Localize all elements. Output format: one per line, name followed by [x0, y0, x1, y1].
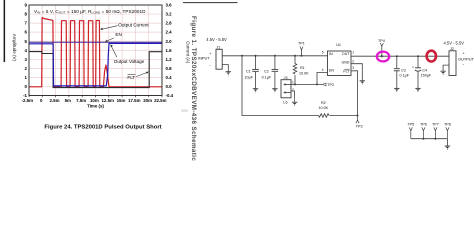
svg-text:VIN = 5 V, COUT = 150 µF, RLOA: VIN = 5 V, COUT = 150 µF, RLOAD = 50 mΩ,…: [34, 9, 146, 15]
wire: R1 top stub: [294, 56, 296, 64]
svg-text:3.6: 3.6: [166, 3, 173, 8]
wire: TP5-TP8 bus: [411, 138, 448, 140]
svg-text:2.0: 2.0: [166, 39, 173, 44]
wire: U1 pin3 FLT down: [351, 71, 358, 116]
resistor R2: [319, 114, 330, 118]
ground: U1 GND pin: [360, 81, 365, 85]
svg-text:20m: 20m: [143, 98, 152, 103]
svg-text:U1: U1: [336, 43, 341, 47]
svg-text:OUTPUT: OUTPUT: [458, 56, 474, 61]
svg-text:FLT: FLT: [127, 75, 135, 80]
capacitor C1: [252, 69, 259, 71]
wire: C1 stubs: [255, 56, 257, 69]
test point TP1: [300, 47, 303, 50]
svg-text:J2: J2: [450, 47, 454, 51]
wire: U1 pin4 EN: [317, 73, 328, 85]
svg-text:TP7: TP7: [432, 122, 439, 126]
wire: TP4 stem: [381, 46, 383, 56]
plot border: [29, 5, 162, 96]
svg-text:Figure 1. TPS20xxCDBVEVM-436 S: Figure 1. TPS20xxCDBVEVM-436 Schematic: [190, 16, 197, 161]
svg-text:EN: EN: [329, 69, 334, 73]
svg-text:1: 1: [352, 50, 354, 54]
y axis labels right: [166, 3, 174, 99]
svg-text:R1: R1: [300, 66, 305, 70]
trace: EN (violet): [29, 41, 162, 43]
svg-text:Figure 24. TPS2001D Pulsed Out: Figure 24. TPS2001D Pulsed Output Short: [44, 124, 161, 130]
svg-text:Time (s): Time (s): [87, 103, 104, 108]
svg-text:4.5V - 5.5V: 4.5V - 5.5V: [206, 37, 227, 42]
connector J3: [281, 80, 291, 98]
svg-text:2: 2: [352, 60, 354, 64]
test point TP2 arrow: [323, 83, 327, 86]
left page border line: [4, 0, 6, 62]
svg-text:0.0: 0.0: [166, 84, 173, 89]
svg-text:3.2: 3.2: [166, 12, 173, 17]
ground: C2: [272, 89, 277, 93]
svg-text:R2: R2: [321, 101, 326, 105]
svg-text:0.8: 0.8: [166, 66, 173, 71]
wire: TP1 stem: [301, 50, 303, 56]
svg-text:TP5: TP5: [407, 122, 414, 126]
wire: U1 pin2 GND: [351, 64, 362, 81]
wire: output rail: [351, 55, 449, 57]
svg-text:FLT: FLT: [343, 70, 350, 74]
wire: R1 bottom stub: [294, 75, 296, 84]
test point TP3: [356, 116, 359, 124]
svg-text:7.5m: 7.5m: [76, 98, 86, 103]
svg-text:10.0K: 10.0K: [319, 106, 329, 110]
wire: J2 ground stub: [443, 65, 449, 71]
capacitor C4 polarized: [415, 68, 421, 71]
svg-text:15m: 15m: [117, 98, 126, 103]
junction dots input rail: [241, 55, 243, 57]
top figure border line: [183, 1, 238, 4]
wire: main input rail: [222, 55, 327, 57]
svg-text:-0.4: -0.4: [166, 93, 174, 98]
svg-text:4: 4: [322, 68, 324, 72]
svg-text:2.5m: 2.5m: [49, 98, 59, 103]
svg-text:C3: C3: [401, 68, 406, 72]
highlight: magenta circle TP4: [377, 52, 389, 62]
svg-text:10.0K: 10.0K: [299, 72, 309, 76]
trace: output voltage (blue): [29, 43, 162, 86]
wire: C4 stubs: [417, 56, 419, 67]
svg-text:3: 3: [352, 66, 354, 70]
svg-text:10m: 10m: [90, 98, 99, 103]
wire: EN node horizontal: [291, 83, 322, 85]
svg-text:J1: J1: [216, 45, 220, 49]
trace: FLT (black): [29, 52, 162, 88]
grid: [29, 5, 162, 96]
junction dots output rail: [396, 55, 398, 57]
svg-text:10µF: 10µF: [245, 76, 254, 80]
test points TP5-TP8: [407, 122, 450, 126]
svg-text:4.5V - 5.5V: 4.5V - 5.5V: [444, 41, 465, 46]
ground: J3 arrow: [294, 98, 296, 103]
svg-text:1: 1: [292, 80, 294, 84]
junction dots EN node: [294, 83, 296, 85]
svg-text:EN: EN: [115, 32, 121, 37]
IC U1: [328, 51, 352, 76]
trace: output current (red): [29, 18, 162, 87]
capacitor C3: [394, 69, 400, 71]
svg-text:Amplitude (V): Amplitude (V): [12, 34, 17, 62]
svg-text:22.5m: 22.5m: [154, 98, 167, 103]
svg-text:C1: C1: [246, 70, 251, 74]
ground: J1: [226, 72, 231, 76]
wire: C3 stubs: [396, 56, 398, 68]
svg-text:2.4: 2.4: [166, 30, 173, 35]
svg-text:OUT: OUT: [342, 52, 350, 56]
svg-text:1.2: 1.2: [166, 57, 173, 62]
svg-text:L6: L6: [283, 101, 287, 105]
test point TP4: [380, 43, 383, 46]
ground: TP8: [445, 146, 450, 150]
ground: C4: [415, 88, 420, 92]
svg-text:TP6: TP6: [420, 122, 427, 126]
svg-text:0.1µF: 0.1µF: [400, 73, 410, 77]
svg-text:5: 5: [322, 50, 324, 54]
svg-text:TP2: TP2: [327, 83, 334, 87]
svg-text:2.8: 2.8: [166, 21, 173, 26]
wire: bottom rail right of R2: [330, 115, 358, 117]
svg-text:TP4: TP4: [378, 39, 385, 43]
svg-text:1.6: 1.6: [166, 48, 173, 53]
svg-text:150µF: 150µF: [421, 73, 432, 77]
highlight: red circle: [427, 51, 436, 62]
svg-text:J3: J3: [284, 76, 288, 80]
ground: C3: [394, 88, 399, 92]
svg-text:0.4: 0.4: [166, 75, 173, 80]
svg-text:C010: C010: [181, 109, 189, 113]
svg-text:Output Current: Output Current: [118, 23, 149, 28]
svg-text:TP1: TP1: [298, 42, 305, 46]
capacitor C2: [272, 69, 279, 71]
junction dot FLT node: [357, 115, 359, 117]
ground: C1: [253, 89, 258, 93]
svg-text:+: +: [412, 66, 414, 70]
svg-text:IN: IN: [329, 52, 333, 56]
svg-text:C4: C4: [422, 68, 427, 72]
connector J2: [449, 51, 456, 76]
svg-text:2: 2: [292, 88, 294, 92]
svg-text:-2.5m: -2.5m: [22, 98, 34, 103]
svg-text:0.1µF: 0.1µF: [262, 76, 272, 80]
y axis labels left: [23, 3, 27, 99]
wire: J3 pin2 to ground: [291, 91, 295, 98]
wire: VIN vertical to bottom rail: [242, 56, 319, 116]
x axis labels: [22, 98, 167, 103]
svg-text:12.5m: 12.5m: [101, 98, 114, 103]
wire: C2 stubs: [274, 56, 276, 69]
resistor R1: [293, 64, 297, 74]
svg-text:Current (A): Current (A): [186, 41, 191, 64]
connector J1: [216, 49, 222, 69]
wire: J1 ground stub: [222, 65, 228, 72]
svg-text:5m: 5m: [65, 98, 71, 103]
svg-text:TP8: TP8: [444, 122, 451, 126]
svg-text:17.5m: 17.5m: [128, 98, 141, 103]
svg-text:TP3: TP3: [356, 125, 363, 129]
svg-text:GND: GND: [342, 61, 350, 65]
svg-text:INPUT: INPUT: [198, 56, 210, 61]
svg-text:C2: C2: [264, 70, 269, 74]
ground: J2: [440, 71, 445, 75]
svg-text:Output Voltage: Output Voltage: [114, 59, 145, 64]
